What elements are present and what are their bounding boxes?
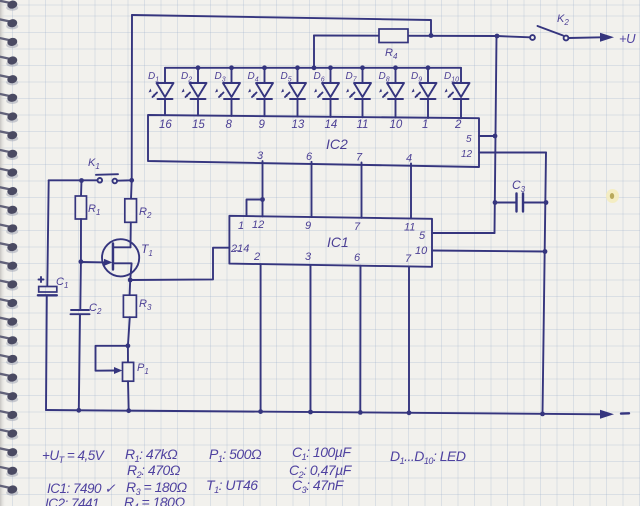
svg-text:D5: D5 bbox=[281, 71, 292, 84]
wire T1 source to IC1 pin14 bbox=[130, 248, 229, 280]
svg-text:IC2: 7441: IC2: 7441 bbox=[45, 496, 99, 506]
LED D8 bbox=[379, 65, 405, 131]
node R1/gate/C2 bbox=[79, 259, 84, 264]
capacitor C1 (electrolytic) bbox=[38, 276, 69, 295]
labels bbox=[42, 444, 466, 506]
svg-text:R4 = 180Ω: R4 = 180Ω bbox=[124, 494, 185, 506]
svg-text:7: 7 bbox=[354, 221, 361, 233]
resistor R3 bbox=[123, 280, 152, 346]
svg-text:D6: D6 bbox=[314, 71, 325, 84]
svg-text:R2: R2 bbox=[139, 206, 152, 220]
wire C1 to bottom rail bbox=[45, 296, 48, 410]
svg-text:D8: D8 bbox=[379, 71, 390, 84]
svg-text:D9: D9 bbox=[411, 71, 422, 84]
svg-text:14: 14 bbox=[325, 119, 338, 131]
wire IC1 pin3 to bottom rail bbox=[310, 265, 312, 412]
wire far right vertical from IC2 pin12 down to bottom rail bbox=[543, 153, 547, 415]
svg-text:IC1: IC1 bbox=[327, 234, 349, 250]
wire IC1 pin2 to bottom rail bbox=[260, 264, 262, 411]
svg-text:D4: D4 bbox=[248, 71, 259, 84]
svg-text:9: 9 bbox=[259, 119, 266, 131]
LED D1 bbox=[148, 68, 174, 131]
wire K2 to +U arrow bbox=[569, 36, 602, 39]
svg-text:R2: 470Ω: R2: 470Ω bbox=[127, 462, 181, 480]
switch K1 bbox=[49, 157, 132, 183]
wire right vertical from +U node down to IC1 pin5 bbox=[495, 36, 497, 233]
LED D10 bbox=[444, 68, 470, 131]
svg-text:R3: R3 bbox=[139, 298, 152, 312]
svg-text:D10: D10 bbox=[444, 71, 459, 84]
svg-text:6: 6 bbox=[354, 252, 361, 264]
svg-text:16: 16 bbox=[159, 119, 172, 131]
node junction +U vertical bbox=[495, 34, 500, 39]
node R3/P1 wiper bbox=[126, 343, 131, 348]
capacitor C2 bbox=[71, 262, 102, 411]
IC1 pin5 wire to right vertical bbox=[432, 232, 495, 234]
potentiometer P1 bbox=[123, 346, 149, 411]
svg-text:15: 15 bbox=[192, 119, 205, 131]
IC1 pin10 wire to far right vertical bbox=[432, 251, 545, 252]
LED D7 bbox=[346, 65, 372, 131]
IC2 pin5 wire bbox=[479, 135, 495, 137]
wire left vertical to C1 bbox=[47, 180, 48, 286]
svg-text:2: 2 bbox=[253, 251, 260, 263]
+U supply arrow bbox=[600, 33, 614, 42]
wire IC2 pin4 to IC1 pin11 bbox=[410, 164, 412, 219]
transistor T1 bbox=[102, 239, 153, 280]
wire R4 node drop to LED bus bbox=[313, 36, 315, 68]
wire IC1 pin6 to bottom rail bbox=[359, 266, 361, 412]
IC2 pin12 wire bbox=[479, 152, 546, 154]
bottom rail junctions bbox=[76, 408, 81, 413]
svg-text:D2: D2 bbox=[181, 71, 192, 84]
svg-text:13: 13 bbox=[292, 119, 305, 131]
svg-text:IC1: 7490 ✓: IC1: 7490 ✓ bbox=[47, 481, 116, 496]
svg-text:C3: C3 bbox=[512, 178, 526, 194]
svg-text:1: 1 bbox=[422, 119, 428, 131]
svg-text:T1: T1 bbox=[141, 242, 153, 258]
resistor R4 bbox=[379, 29, 408, 43]
svg-text:R4: R4 bbox=[385, 47, 398, 61]
svg-text:P1: 500Ω: P1: 500Ω bbox=[209, 446, 262, 464]
svg-text:9: 9 bbox=[305, 220, 311, 232]
wire bottom rail (minus) bbox=[46, 410, 601, 414]
node K1/R2/top-rail bbox=[129, 178, 134, 183]
paper fleck bbox=[606, 189, 619, 203]
LED D6 bbox=[314, 65, 340, 131]
wire gate with arrow into T1 bbox=[81, 261, 107, 263]
IC U1 (IC1) body bbox=[229, 216, 432, 267]
svg-text:7: 7 bbox=[405, 253, 412, 265]
wire node to K2 bbox=[497, 36, 530, 37]
svg-text:11: 11 bbox=[404, 222, 415, 234]
IC U2 (IC2) body bbox=[148, 115, 479, 167]
resistor R1 bbox=[75, 181, 100, 262]
svg-text:K2: K2 bbox=[557, 13, 569, 27]
node junction R4-right / top rail bbox=[429, 33, 434, 38]
svg-text:5: 5 bbox=[466, 134, 472, 145]
LED D3 bbox=[215, 65, 241, 131]
svg-text:C2: C2 bbox=[89, 302, 102, 316]
wire top rail from K1/R2 node to R4 node bbox=[132, 15, 431, 36]
svg-text:5: 5 bbox=[419, 230, 426, 242]
svg-text:D7: D7 bbox=[346, 71, 358, 84]
wire R4 branch bbox=[314, 35, 497, 38]
wire IC1 pin7 to bottom rail bbox=[408, 266, 410, 412]
svg-text:3: 3 bbox=[305, 251, 312, 263]
svg-text:12: 12 bbox=[252, 219, 264, 231]
svg-text:D1: D1 bbox=[148, 71, 159, 84]
LED D5 bbox=[281, 65, 307, 131]
svg-text:C3: 47nF: C3: 47nF bbox=[292, 477, 345, 495]
wire IC2 pin3 to IC1 pins 1,12 bbox=[262, 161, 264, 216]
svg-text:K1: K1 bbox=[88, 157, 100, 171]
switch K2 bbox=[530, 13, 569, 40]
svg-text:+U: +U bbox=[619, 31, 636, 46]
svg-text:D1...D10: LED: D1...D10: LED bbox=[390, 448, 466, 466]
minus supply arrow bbox=[600, 410, 614, 419]
wire wiper loop with arrow into P1 bbox=[96, 346, 128, 371]
LED D9 bbox=[411, 65, 437, 131]
capacitor C3 bbox=[493, 178, 549, 212]
svg-text:T1: UT46: T1: UT46 bbox=[206, 477, 258, 495]
svg-text:8: 8 bbox=[226, 119, 233, 131]
svg-text:C1: 100µF: C1: 100µF bbox=[292, 444, 352, 462]
svg-text:IC2: IC2 bbox=[326, 136, 348, 152]
svg-text:1: 1 bbox=[238, 220, 244, 232]
svg-text:12: 12 bbox=[461, 149, 473, 160]
LED D2 bbox=[181, 65, 207, 131]
wire IC2 pin6 to IC1 pin9 bbox=[311, 162, 313, 217]
svg-text:10: 10 bbox=[390, 119, 403, 131]
svg-text:10: 10 bbox=[415, 245, 428, 257]
wire IC2 pin7 to IC1 pin7 bbox=[361, 163, 363, 218]
svg-text:+UT = 4,5V: +UT = 4,5V bbox=[42, 448, 106, 465]
wire LED anode bus bbox=[165, 67, 461, 69]
svg-text:D3: D3 bbox=[215, 71, 226, 84]
svg-text:C1: C1 bbox=[56, 276, 68, 290]
svg-text:11: 11 bbox=[357, 119, 369, 131]
svg-text:P1: P1 bbox=[137, 362, 149, 376]
svg-text:2: 2 bbox=[454, 119, 462, 131]
LED D4 bbox=[248, 65, 274, 131]
svg-text:R1: R1 bbox=[88, 203, 100, 217]
resistor R2 bbox=[125, 180, 152, 247]
wire top rail left drop to K1/R2 node bbox=[131, 15, 133, 180]
spiral binding bbox=[0, 0, 18, 506]
node K1/R1 bbox=[79, 178, 84, 183]
svg-text:3: 3 bbox=[257, 150, 264, 162]
node T1 source bbox=[128, 278, 133, 283]
svg-text:2̶14: 2̶14 bbox=[230, 243, 249, 255]
